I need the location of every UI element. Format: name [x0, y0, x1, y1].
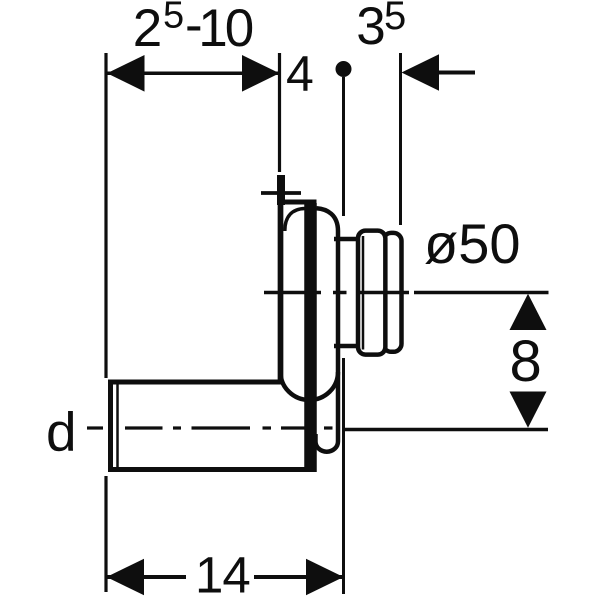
svg-text:2: 2 [133, 0, 162, 58]
svg-text:4: 4 [286, 46, 314, 102]
svg-text:ø50: ø50 [424, 212, 521, 275]
svg-text:5: 5 [384, 0, 406, 38]
svg-text:10: 10 [198, 0, 252, 58]
svg-text:14: 14 [195, 547, 250, 600]
svg-text:8: 8 [510, 329, 542, 394]
svg-text:5: 5 [163, 0, 184, 37]
svg-text:d: d [46, 401, 77, 463]
svg-text:3: 3 [356, 0, 385, 56]
